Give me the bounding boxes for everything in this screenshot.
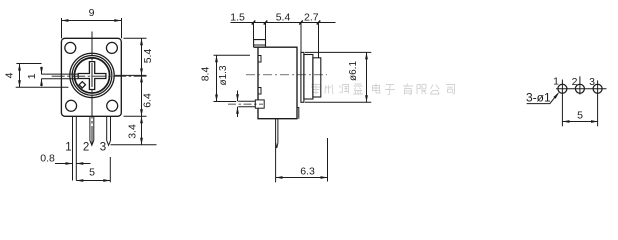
dimension 1 arrows bbox=[40, 67, 43, 86]
dimension 6.3 arrows bbox=[276, 176, 328, 179]
dimension 1 arrow tails bbox=[41, 67, 43, 86]
svg-text:3: 3 bbox=[100, 142, 106, 154]
front view pin 2 bbox=[90, 116, 94, 145]
side view terminal centerline bbox=[228, 103, 263, 105]
front view vertical centerline bbox=[91, 32, 93, 144]
dimension dia6.1 extension lines bbox=[305, 52, 371, 102]
hole 2 bbox=[575, 84, 584, 93]
dimension 4 arrows bbox=[18, 64, 21, 88]
front view shaft key notch bbox=[79, 82, 85, 88]
dimension 0.8 arrow lines bbox=[55, 163, 91, 165]
dimension 8.4 line bbox=[216, 55, 218, 101]
side top extension lines bbox=[254, 23, 319, 58]
dimension 5 (front) line bbox=[76, 180, 110, 182]
svg-text:3.4: 3.4 bbox=[126, 124, 138, 139]
side top dimension ticks bbox=[252, 21, 321, 25]
dimension 6.3 line bbox=[276, 177, 328, 179]
svg-text:5: 5 bbox=[89, 166, 95, 178]
front view mounting hole top-right bbox=[106, 42, 117, 53]
front view pin 1 bbox=[73, 116, 77, 180]
front view mounting hole top-left bbox=[65, 42, 76, 53]
dimension 5 (holes) line bbox=[563, 121, 599, 123]
dimension 4 extension lines bbox=[16, 64, 69, 88]
right-side extension lines of front view bbox=[111, 38, 157, 145]
svg-text:ø6.1: ø6.1 bbox=[348, 61, 359, 81]
side view rivet bump lower bbox=[258, 88, 261, 95]
dimension dia6.1 arrows bbox=[365, 52, 368, 102]
svg-text:0.8: 0.8 bbox=[40, 152, 55, 164]
dimension column 5.4 6.4 3.4 line bbox=[141, 38, 143, 145]
side view shaft centerline bbox=[246, 74, 327, 76]
svg-text:3: 3 bbox=[589, 76, 595, 88]
dimension 5 (holes) arrows bbox=[563, 120, 599, 123]
hole 1 bbox=[558, 84, 567, 93]
side view shaft bbox=[313, 58, 321, 97]
svg-text:6.4: 6.4 bbox=[141, 93, 153, 108]
side view terminal base bbox=[255, 100, 264, 108]
side view body bbox=[254, 47, 297, 119]
svg-text:8.4: 8.4 bbox=[200, 67, 212, 82]
side view rivet bump upper bbox=[258, 56, 261, 63]
dimension dia1.3 arrow tails bbox=[237, 91, 239, 118]
dimension 5 (front) extension line right bbox=[109, 157, 111, 182]
side view flange bbox=[301, 52, 304, 102]
svg-text:5.4: 5.4 bbox=[142, 49, 154, 64]
front view body bbox=[61, 38, 121, 116]
svg-text:2: 2 bbox=[83, 142, 89, 154]
front view shaft outer circle bbox=[70, 53, 114, 97]
front view slot extension lines for dim 1 bbox=[41, 74, 78, 79]
dimension 0.8 arrows bbox=[66, 162, 84, 165]
svg-text:1.5: 1.5 bbox=[230, 12, 245, 24]
dimension 9 line bbox=[61, 20, 121, 22]
hole 3 bbox=[593, 84, 602, 93]
side view down pin long edge bbox=[275, 119, 277, 183]
svg-text:1: 1 bbox=[26, 73, 38, 79]
side view bushing bbox=[304, 55, 313, 100]
hole layout horizontal centerline bbox=[556, 88, 607, 90]
dimension 8.4 arrows bbox=[215, 55, 218, 101]
dimension 6.3 extension line right bbox=[327, 138, 329, 182]
svg-text:2.7: 2.7 bbox=[304, 12, 319, 24]
watermark company name bbox=[311, 84, 455, 95]
dimension 8.4 extension lines bbox=[214, 55, 251, 101]
svg-text:3-ø1: 3-ø1 bbox=[526, 91, 551, 105]
svg-text:4: 4 bbox=[4, 72, 16, 78]
label 3-dia1 leader bbox=[527, 94, 558, 104]
svg-text:2: 2 bbox=[572, 76, 578, 88]
hole 3 vertical centerline bbox=[597, 80, 599, 126]
dimension 9 extension lines bbox=[62, 18, 122, 38]
front view shaft middle circle bbox=[72, 56, 112, 96]
hole 1 vertical centerline bbox=[561, 80, 563, 127]
dimension 9 arrows bbox=[61, 19, 121, 22]
dimension dia6.1 line bbox=[366, 52, 368, 102]
dimension column arrows bbox=[140, 38, 143, 145]
dimension 5 (front) arrows bbox=[76, 179, 110, 182]
front view shaft inner circle bbox=[74, 58, 109, 93]
side view down pin bbox=[276, 119, 278, 148]
side view bottom step bbox=[297, 108, 299, 119]
side top dimension line bbox=[231, 22, 336, 24]
svg-text:6.3: 6.3 bbox=[300, 166, 315, 178]
side view terminal (horizontal pin) bbox=[238, 101, 255, 107]
svg-text:9: 9 bbox=[89, 7, 95, 19]
dimension 4 line bbox=[19, 64, 21, 88]
hole 2 vertical centerline bbox=[579, 76, 581, 94]
svg-text:ø1.3: ø1.3 bbox=[218, 65, 229, 85]
side view top lug bbox=[254, 40, 266, 48]
svg-text:5: 5 bbox=[577, 109, 583, 121]
svg-text:5.4: 5.4 bbox=[276, 12, 291, 24]
svg-text:1: 1 bbox=[553, 75, 559, 87]
front view mounting hole bottom-left bbox=[66, 100, 77, 111]
dimension dia1.3 arrows bbox=[236, 94, 239, 114]
front view mounting hole bottom-right bbox=[107, 100, 118, 111]
front view shaft slot cross bbox=[78, 62, 106, 90]
svg-text:1: 1 bbox=[65, 142, 71, 154]
front view pin 3 bbox=[107, 116, 111, 145]
label 3-dia1 leader arrow bbox=[553, 92, 559, 99]
front view horizontal centerline bbox=[52, 75, 147, 77]
